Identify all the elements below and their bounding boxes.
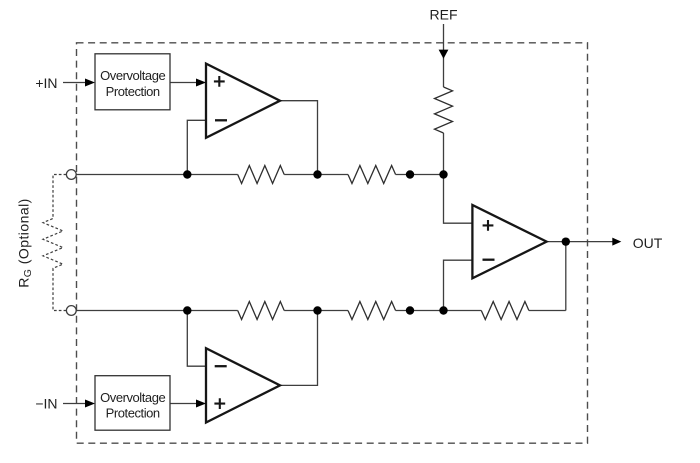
arrowhead into A2 bbox=[196, 400, 206, 408]
op-amp A1 (top) bbox=[206, 64, 280, 138]
svg-text:+IN: +IN bbox=[35, 75, 57, 91]
dashed device boundary box bbox=[77, 43, 588, 443]
wire node to A3 noninverting input bbox=[444, 175, 473, 224]
svg-text:Protection: Protection bbox=[106, 84, 160, 99]
resistor REF R5 bbox=[435, 87, 453, 133]
node dot top rail 3 bbox=[406, 170, 414, 178]
svg-text:Protection: Protection bbox=[106, 406, 160, 421]
arrowhead REF bbox=[439, 50, 449, 59]
node dot bottom rail 3 bbox=[406, 306, 414, 314]
wire REF vertical upper bbox=[443, 24, 445, 87]
wire -IN to overvoltage protection bbox=[63, 403, 86, 405]
A3 minus symbol bbox=[483, 259, 495, 261]
resistor RG external (dashed) bbox=[43, 175, 66, 311]
node dot top rail 2 bbox=[313, 170, 321, 178]
terminal circle RG top bbox=[66, 170, 76, 180]
svg-text:−IN: −IN bbox=[35, 395, 57, 411]
node dot bottom rail 2 bbox=[313, 306, 321, 314]
resistor top-left R1 bbox=[238, 166, 285, 184]
wire A2 output bbox=[280, 311, 318, 386]
node dot output bbox=[562, 237, 570, 245]
terminal circle RG bottom bbox=[66, 306, 76, 316]
resistor top-right R2 bbox=[348, 166, 396, 184]
A2 plus symbol bbox=[214, 398, 225, 409]
wire bottom rail middle segment bbox=[284, 310, 348, 312]
wire feedback vertical bbox=[565, 242, 567, 311]
svg-text:Overvoltage: Overvoltage bbox=[100, 68, 165, 83]
wire top rail middle segment bbox=[284, 174, 348, 176]
wire overvoltage protection to A2 bbox=[170, 403, 197, 405]
A2 minus symbol bbox=[215, 365, 227, 367]
wire bottom rail right segment bbox=[396, 310, 444, 312]
wire +IN to overvoltage protection bbox=[63, 82, 86, 84]
arrowhead -IN bbox=[85, 400, 95, 408]
wire feedback resistor to node bbox=[444, 310, 482, 312]
wire REF resistor to node bbox=[443, 133, 445, 175]
overvoltage protection block bottom bbox=[95, 376, 170, 431]
wire overvoltage protection to A1 bbox=[170, 82, 197, 84]
svg-text:REF: REF bbox=[430, 6, 458, 22]
arrowhead OUT bbox=[612, 238, 621, 246]
A3 plus symbol bbox=[483, 220, 494, 231]
wire A3 output to OUT bbox=[547, 241, 613, 243]
op-amp A3 (output) bbox=[472, 205, 546, 278]
node dot top rail 1 bbox=[183, 170, 191, 178]
wire feedback resistor to output node bbox=[529, 310, 566, 312]
wire A2 inverting input stub bbox=[187, 311, 206, 367]
wire A3 inverting input stub bbox=[444, 260, 473, 310]
wire top rail left segment bbox=[76, 174, 237, 176]
A1 minus symbol bbox=[215, 119, 227, 121]
resistor bottom-right R6 bbox=[348, 302, 396, 320]
resistor bottom-left R3 bbox=[238, 302, 285, 320]
wire top rail right segment bbox=[396, 174, 444, 176]
svg-text:Overvoltage: Overvoltage bbox=[100, 390, 165, 405]
node dot bottom rail 1 bbox=[183, 306, 191, 314]
wire A1 output bbox=[280, 101, 318, 175]
wire bottom rail left segment bbox=[76, 310, 237, 312]
wire A1 inverting input stub bbox=[187, 120, 206, 174]
op-amp A2 (bottom) bbox=[206, 348, 280, 422]
A1 plus symbol bbox=[214, 76, 225, 87]
node dot top rail REF junction bbox=[439, 170, 447, 178]
resistor feedback R4 bbox=[481, 302, 529, 320]
node dot bottom rail feedback junction bbox=[439, 306, 447, 314]
svg-text:OUT: OUT bbox=[633, 235, 663, 251]
arrowhead into A1 bbox=[196, 79, 206, 87]
arrowhead +IN bbox=[85, 79, 95, 87]
overvoltage protection block top bbox=[95, 54, 170, 110]
